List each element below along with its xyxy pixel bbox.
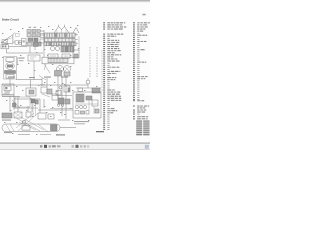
- brake pedal wedge: [1, 35, 13, 44]
- pump pair: [57, 66, 64, 73]
- svg-text:Brake Circuit: Brake Circuit: [2, 17, 19, 21]
- hydraulic tank: [42, 57, 74, 64]
- wire crossover diagonals: [16, 113, 48, 132]
- wire manifold right stubs: [75, 35, 78, 44]
- bottom toolbar: [0, 143, 150, 150]
- relief valve manifold tent: [54, 27, 69, 34]
- pedal mount box: [1, 45, 9, 49]
- check valve box: [28, 55, 40, 61]
- manifold left port boxes: [40, 34, 44, 38]
- gauge circles: [50, 46, 54, 50]
- brake valve cluster left box: [22, 39, 27, 46]
- axle valve row: [2, 113, 12, 118]
- air compressor stack: [4, 57, 17, 80]
- wire manifold left riser: [43, 30, 45, 57]
- wire valve cluster to manifold: [26, 31, 44, 43]
- breather and pilot line: [73, 28, 79, 34]
- component labels row: [8, 77, 15, 78]
- parking brake unit box: [73, 92, 101, 118]
- page background: [0, 0, 150, 150]
- brake booster valves: [64, 86, 70, 92]
- legend col2: [133, 22, 150, 100]
- reference number dots: [2, 25, 97, 135]
- manifold valve row 3: [44, 42, 76, 46]
- axle cylinder capsule: [2, 124, 60, 131]
- manifold lower boxes: [48, 54, 58, 58]
- pedal linkage boxes: [16, 33, 20, 36]
- air reservoir box: [2, 84, 14, 96]
- manifold valve row 2: [45, 38, 76, 41]
- col2 blocks: [133, 100, 150, 135]
- wire pedal to valve cluster: [9, 42, 28, 47]
- solenoid block: [61, 46, 74, 52]
- brake valve cluster rows: [27, 30, 31, 33]
- top window gradient: [0, 0, 150, 3]
- page mark top right: [143, 14, 146, 16]
- legend col1: [103, 22, 126, 130]
- brake valve cluster labels: [29, 27, 32, 28]
- manifold valve row 1: [45, 33, 76, 38]
